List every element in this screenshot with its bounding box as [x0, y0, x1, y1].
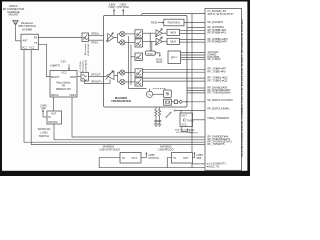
svg-text:VCC: VCC [181, 123, 187, 127]
svg-text:RSSI: RSSI [148, 54, 153, 56]
svg-text:RF_RSSI#79: RF_RSSI#79 [208, 20, 224, 24]
svg-text:RSSI: RSSI [151, 20, 157, 24]
svg-text:OUT: OUT [51, 111, 57, 115]
svg-text:VRF: VRF [41, 107, 47, 111]
svg-text:VDET: VDET [69, 93, 76, 97]
load switch supply arrow [42, 110, 44, 117]
PA supply arrow [68, 64, 70, 70]
svg-text:Murata: Murata [84, 42, 87, 55]
svg-text:RFOUT: RFOUT [51, 75, 60, 79]
wire xtal to div box [171, 101, 174, 103]
svg-text:MOUNT: MOUNT [9, 13, 19, 17]
svg-text:RF_TXENABLE#59: RF_TXENABLE#59 [208, 90, 231, 94]
wire RXHP to connector [187, 27, 205, 29]
vertical VBATT bus [191, 13, 193, 167]
load switch label [38, 127, 51, 138]
wire TCXO VCC to supply [182, 127, 188, 132]
svg-text:RF_RXBBQ-#P7: RF_RXBBQ-#P7 [208, 39, 228, 43]
loop filter resistor R1 [155, 107, 157, 121]
svg-text:RF_TXBBI-#P5: RF_TXBBI-#P5 [208, 70, 227, 74]
svg-text:2.85VSYNTHLDO: 2.85VSYNTHLDO [99, 147, 120, 151]
svg-text:MUX: MUX [156, 60, 162, 64]
svg-text:VSYNTH: VSYNTH [189, 133, 198, 135]
svg-text:SPI™: SPI™ [171, 55, 178, 59]
wire mixers to RX filters [125, 33, 135, 35]
wire TCXO OUT to transceiver [174, 110, 176, 112]
tune annotation arrow [166, 113, 170, 118]
wire antenna to switch ANT [16, 40, 22, 42]
dashed wire VCO to PD [153, 88, 165, 90]
load switch U4 [47, 111, 62, 124]
reference buffer [179, 100, 182, 103]
frame border right [247, 0, 250, 176]
svg-text:IN: IN [48, 115, 51, 119]
top VBATT bus [141, 13, 205, 15]
MAX2820 transceiver U1 [104, 15, 188, 107]
wire filters to VGAs [143, 32, 157, 34]
ground loop filter [154, 124, 162, 126]
LDO1 MAX8510 [120, 153, 141, 164]
wire VCO to PD [153, 93, 164, 95]
wire PA VDET to connector [72, 97, 205, 137]
svg-text:VBIAS: VBIAS [51, 93, 59, 97]
svg-text:ON/OFF: ON/OFF [48, 120, 58, 124]
svg-text:OUT: OUT [181, 114, 187, 118]
RX lowpass filter Q [135, 39, 143, 47]
wire RFIN+ [89, 34, 104, 36]
wire middle box to LO line [131, 56, 135, 58]
svg-text:RFIN+: RFIN+ [92, 31, 100, 35]
svg-text:IN: IN [122, 156, 125, 160]
wire VC1 down to bottom bus [24, 50, 205, 143]
PD box [164, 90, 172, 98]
svg-text:RFIN-: RFIN- [92, 40, 99, 44]
svg-text:2.85VRFLDO: 2.85VRFLDO [158, 147, 174, 151]
svg-text:RFOUT+: RFOUT+ [92, 79, 103, 83]
svg-text:RX: RX [34, 36, 38, 40]
bottom VBATT bus [99, 158, 205, 168]
svg-text:MMPA0712X: MMPA0712X [56, 87, 71, 91]
TX mixer I [118, 70, 125, 75]
2.85V VRF supply arrow (top) [109, 2, 116, 15]
svg-text:OUT: OUT [183, 156, 189, 160]
svg-text:TUNE: TUNE [187, 118, 194, 122]
murata TX filter note (vertical) [80, 59, 88, 73]
TX gain filter box middle [135, 53, 143, 61]
svg-text:LFB212G45: LFB212G45 [88, 43, 90, 56]
svg-text:(VRF): (VRF) [109, 5, 116, 9]
wire VBATT row to bus [192, 163, 205, 165]
enable wires to transceiver [187, 87, 205, 89]
wires mixers to TX filters [125, 72, 135, 74]
svg-text:2.3-2.5GHz: 2.3-2.5GHz [80, 62, 82, 73]
3.3V VBATT label [50, 59, 66, 67]
wire TX driver to mixers [114, 75, 118, 77]
svg-text:MUX: MUX [170, 31, 176, 35]
SPDT switch U2 [21, 34, 38, 49]
SPI box [168, 51, 181, 64]
TX balun filter F2 [81, 72, 88, 81]
MUX Q box [167, 38, 180, 44]
svg-text:MUX: MUX [170, 40, 176, 44]
svg-text:FREQ_STEER#47: FREQ_STEER#47 [208, 116, 230, 120]
RX lowpass filter I [135, 30, 143, 38]
wires VGA to MUX [163, 32, 168, 34]
svg-text:OUT: OUT [132, 156, 138, 160]
2.85V VRF label at load switch [40, 104, 47, 111]
RX bandpass filter F1 [82, 33, 89, 42]
switch label [18, 21, 36, 31]
wire to buffer [178, 101, 179, 103]
svg-text:(VSYNTH): (VSYNTH) [117, 5, 129, 9]
svg-text:TRANSCEIVER: TRANSCEIVER [111, 99, 131, 103]
wire LDO1 out to VSYNTH arrow [141, 157, 146, 159]
TXBB wires from connector to TX filters [143, 68, 206, 70]
murata filter note (vertical) [84, 42, 90, 56]
antenna ANT1 [13, 20, 19, 41]
connector box J1 [205, 9, 242, 171]
loop filter resistor R2 [159, 107, 161, 121]
svg-text:RF_RXBBI-#P3: RF_RXBBI-#P3 [208, 31, 227, 35]
svg-text:ANT: ANT [23, 38, 29, 42]
svg-text:TX: TX [34, 41, 38, 45]
svg-text:(VBATT): (VBATT) [50, 63, 60, 67]
RX mixer I [118, 31, 125, 36]
loop filter capacitors [154, 121, 161, 125]
svg-text:VC2: VC2 [29, 45, 35, 49]
RSSI block lower [149, 33, 151, 51]
crystal osc box [164, 99, 172, 105]
svg-text:RF_REFCLKIN#41: RF_REFCLKIN#41 [208, 107, 231, 111]
svg-text:#45,47,49,51,53,55,57: #45,47,49,51,53,55,57 [208, 12, 235, 16]
LDO2 MAX8510 [172, 153, 193, 164]
wire PA RFIN to filter [77, 76, 81, 78]
PA U3 [50, 71, 77, 98]
wire switch TX to PA RFOUT [38, 44, 50, 76]
wire RSSI MUX to connector [184, 22, 205, 24]
svg-text:VRF: VRF [196, 156, 202, 160]
svg-text:RSSI MUX: RSSI MUX [168, 21, 181, 25]
svg-text:60-PIN BOARD EDGE CONNECTOR FO: 60-PIN BOARD EDGE CONNECTOR FOR WLAN AND… [241, 19, 244, 157]
svg-text:HVS488: HVS488 [22, 27, 32, 31]
divider box [174, 100, 177, 104]
wire FREQ_STEER to TCXO tune [193, 119, 206, 121]
svg-text:I/O(2.7V): I/O(2.7V) [209, 164, 220, 168]
connector pin labels [208, 9, 235, 168]
SPI wires to connector [181, 51, 206, 53]
svg-text:RF_REFCLKOUT#43: RF_REFCLKOUT#43 [208, 98, 234, 102]
RSSI MUX box [164, 19, 184, 26]
VCO [146, 89, 152, 98]
svg-text:RFOUT-: RFOUT- [92, 73, 102, 77]
2.85V VSYNTH supply arrow (top) [117, 2, 129, 15]
TCXO box [180, 113, 193, 127]
TX lowpass filter Q [135, 78, 143, 86]
svg-text:VC1: VC1 [22, 45, 28, 49]
wire switch RX to RX filter [38, 37, 82, 39]
LDO1 labels [99, 144, 120, 151]
VBATT input arrows [206, 163, 208, 165]
RFOUT wires and labels [88, 76, 103, 78]
svg-text:RF_TXBBQ-#Q3: RF_TXBBQ-#Q3 [208, 79, 228, 83]
RX mixer Q [118, 40, 125, 45]
svg-text:2.4GHz BALUN: 2.4GHz BALUN [85, 60, 88, 73]
wire REFCLKOUT to connector [182, 101, 205, 103]
LO distribution wires [128, 36, 130, 89]
TCXO labels [175, 129, 194, 134]
TX mixer Q [118, 79, 125, 84]
svg-text:RF_TRSW#75: RF_TRSW#75 [208, 142, 226, 146]
frame border bottom [0, 171, 250, 176]
wires TX driver to box edge [104, 76, 107, 78]
wires MUX I outputs to connector [180, 30, 206, 32]
frame border left [0, 0, 2, 176]
svg-text:Murata: Murata [82, 59, 85, 73]
MUX I box [167, 29, 180, 35]
wire LDO2 out to VRF arrow [193, 157, 195, 159]
LDO2 labels [158, 144, 174, 151]
svg-text:VCC: VCC [61, 71, 67, 75]
svg-text:3.3V: 3.3V [61, 59, 67, 63]
TX lowpass filter I [135, 69, 143, 77]
wire ON/OFF to connector [54, 124, 205, 140]
RX VGA I [155, 29, 163, 37]
wire LNA out to mixers [114, 37, 118, 39]
wire VC2 down to bottom bus [31, 50, 205, 145]
svg-text:IN: IN [174, 156, 177, 160]
svg-text:VSYNTH: VSYNTH [148, 156, 159, 160]
wires MUX Q outputs to connector [180, 39, 206, 41]
LNA U1a [106, 33, 114, 42]
svg-text:RF_CS#29: RF_CS#29 [208, 57, 221, 61]
svg-text:SWITCH: SWITCH [39, 134, 49, 138]
wire RFIN- [89, 39, 104, 41]
svg-text:LOAD: LOAD [40, 131, 47, 135]
svg-text:RFIN: RFIN [70, 75, 76, 79]
crystal glyph in TCXO [183, 119, 185, 122]
wire PA VBIAS to load switch OUT [53, 97, 55, 111]
TX driver amp [106, 71, 115, 80]
frame border top [0, 0, 250, 2]
svg-text:SI1563 DH: SI1563 DH [38, 127, 51, 131]
MMCX connector note [3, 4, 25, 17]
branch to LDO2 IN [167, 158, 171, 168]
RX VGA Q [155, 37, 163, 45]
